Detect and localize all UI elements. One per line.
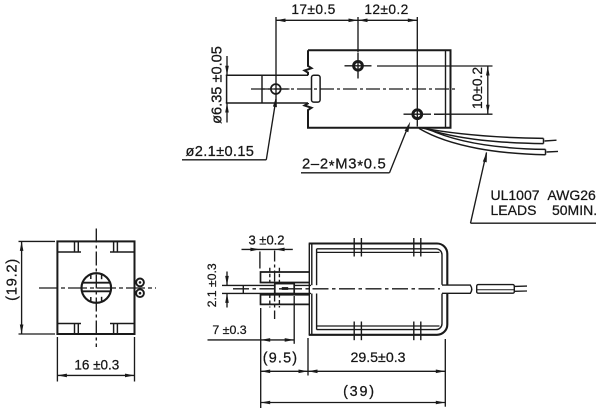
front view bottom-right flange step [110,324,135,335]
side view vertical centerline [274,251,276,320]
leader for Ø2.1±0.15 [182,99,276,160]
plunger mid block [275,284,294,294]
plunger shaft top edge [226,74,308,76]
front view top-left flange step [57,241,81,252]
leader for UL1007 note [471,153,487,224]
svg-text:3 ±0.2: 3 ±0.2 [248,233,284,248]
dimension (19.2) [19,241,56,334]
bottom hole crosshair [404,113,444,115]
front view plunger circle [82,273,112,303]
front view top-right flange step [110,241,135,252]
svg-text:17±0.5: 17±0.5 [291,2,335,17]
dimension Ø6.35±0.05 [226,56,228,123]
svg-text:12±0.2: 12±0.2 [364,2,408,17]
dimension 16±0.3 [57,337,134,382]
plunger shaft bottom edge [226,102,308,104]
side view horizontal centerline [233,288,440,290]
stake marks in circle [91,274,102,302]
svg-text:(19.2): (19.2) [5,258,21,301]
top view body outline [305,50,451,127]
plunger left end cap [226,75,228,103]
slot chords in circle [82,282,111,284]
case rivet ticks top [354,238,421,257]
dimension 10±0.2 [377,66,493,114]
stripped wire ends [545,140,559,152]
svg-text:(9.5): (9.5) [263,351,299,367]
plunger hole (2.1mm) circle [271,84,281,94]
pin shaft lines left [222,285,311,293]
dimension (9.5) [261,338,308,376]
side view outer case [309,244,448,335]
top view body inner right edge line [445,51,447,127]
svg-text:7 ±0.3: 7 ±0.3 [212,323,246,337]
dimension 29.5±0.3 [308,339,445,407]
dimension (39) [261,402,446,404]
side view inner case line [317,249,442,330]
svg-text:LEADS 50MIN.: LEADS 50MIN. [491,202,598,218]
plunger end cap seen through slot [312,75,321,102]
svg-text:29.5±0.3: 29.5±0.3 [350,350,405,366]
plunger hole crosshair [263,88,290,90]
wire terminal grommet upper [136,279,144,287]
side view front plate double line [309,244,312,335]
side view bobbin lines [317,252,440,326]
top view horizontal centerline [251,88,457,90]
pin/terminal piece right [477,285,515,294]
front view bottom-left flange step [57,324,81,335]
slot mark in mid block [282,287,288,290]
thin lead lines right [514,286,527,291]
front view horizontal centerline [39,287,156,289]
lead wires [419,128,546,155]
svg-text:2.1 ±0.3: 2.1 ±0.3 [205,263,219,307]
svg-text:16 ±0.3: 16 ±0.3 [74,357,119,372]
bottom mounting hole M3 [413,110,422,119]
plunger top bar [261,272,310,283]
front view vertical centerline [95,229,97,348]
top hole crosshair [345,53,372,79]
svg-text:UL1007 AWG26: UL1007 AWG26 [491,187,597,203]
top mounting hole M3 [354,61,363,70]
front view outer outline [57,241,134,334]
guide tube right [442,285,472,293]
case rivet ticks bottom [354,322,421,341]
wire terminal grommet lower [136,289,144,297]
dimension 2.1±0.3 [226,272,228,308]
svg-text:ø6.35 ±0.05: ø6.35 ±0.05 [210,46,226,124]
svg-text:2–2*M3*0.5: 2–2*M3*0.5 [302,157,386,175]
hidden pin hole lines [270,268,280,308]
arrows for 17/12 dims [276,19,417,23]
svg-text:ø2.1±0.15: ø2.1±0.15 [186,144,255,160]
dimension 3±0.2 [242,249,293,268]
svg-text:10±0.2: 10±0.2 [470,67,485,109]
dimension 17±0.5 and 12±0.2 lines [276,17,417,127]
plunger bottom bar [261,295,310,305]
dimension 7±0.3 [208,296,295,408]
svg-text:(39): (39) [343,384,376,400]
plunger paddle divider [261,75,263,103]
